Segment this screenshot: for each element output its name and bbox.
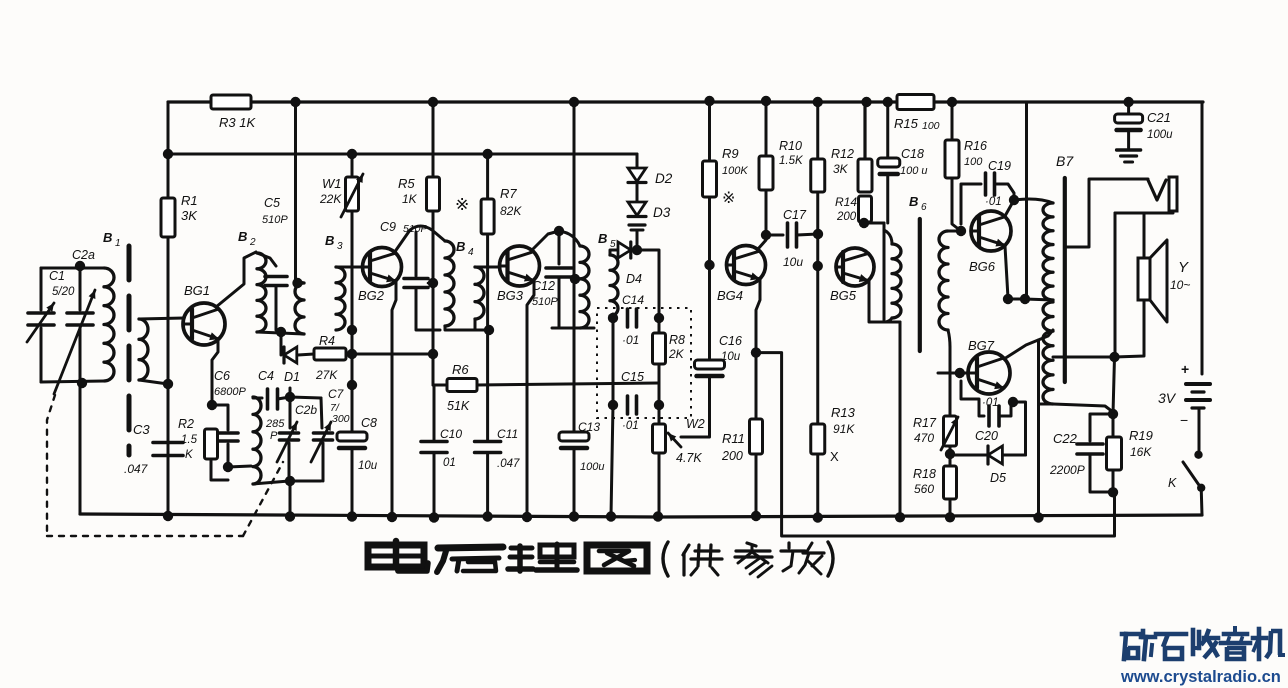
node top bus feed (290, 97, 300, 107)
svg-text:·01: ·01 (985, 196, 1002, 208)
svg-text:470: 470 (914, 431, 934, 445)
inductor B2 winding B (295, 283, 304, 334)
svg-text:P: P (270, 430, 278, 442)
resistor R15 on top bus (897, 95, 934, 110)
svg-text:B: B (456, 239, 465, 254)
wire B6 secondary top to BG6 base (948, 230, 958, 233)
svg-text:Y: Y (1178, 259, 1189, 276)
title character fang (787, 543, 790, 548)
wire R9 to BG4 base (708, 197, 711, 265)
wire jack to speaker line (1115, 212, 1173, 215)
capacitor C3 (153, 441, 183, 445)
node C14 right (654, 313, 664, 323)
svg-text:R17: R17 (913, 416, 937, 430)
svg-text:R19: R19 (1129, 428, 1153, 443)
ground symbol C21 (1117, 148, 1141, 151)
svg-text:4: 4 (468, 247, 474, 258)
svg-text:22K: 22K (319, 192, 342, 206)
svg-text:K: K (1168, 476, 1177, 490)
wire base node to C16 (708, 265, 711, 361)
capacitor C19 (961, 184, 981, 224)
node tank bottom (77, 378, 87, 388)
svg-text:+: + (1181, 361, 1189, 377)
svg-text:B: B (598, 231, 607, 246)
node R12 top bus (813, 97, 823, 107)
wire BG3 emitter to ground (527, 280, 534, 517)
wire B1 secondary bottom to R1 line (139, 380, 168, 384)
svg-text:C14: C14 (622, 293, 644, 307)
svg-text:100u: 100u (1147, 129, 1173, 141)
svg-text:D3: D3 (653, 205, 671, 220)
wire BG7 emitter network (961, 381, 984, 416)
node C17 right junction (813, 229, 823, 239)
node R10 top bus (761, 96, 771, 106)
node R13 ground (813, 512, 823, 522)
inductor B5 primary (580, 246, 589, 328)
wire B5 secondary top to D4 (610, 250, 618, 255)
svg-text:4.7K: 4.7K (676, 451, 702, 465)
wire BG4 emitter down (756, 279, 760, 352)
svg-text:R13: R13 (831, 405, 856, 420)
node W1 top on second bus (347, 149, 357, 159)
svg-text:C4: C4 (258, 369, 274, 383)
wire BG6 collector diagonal (1005, 200, 1014, 216)
svg-text:R6: R6 (452, 362, 469, 377)
capacitor C10 (433, 385, 436, 440)
svg-text:.047: .047 (124, 462, 149, 476)
dotted detector box (597, 308, 691, 418)
svg-text:1K: 1K (402, 192, 418, 206)
capacitor C21 electrolytic (1127, 102, 1130, 113)
wire AGC line (280, 332, 283, 355)
wire B4 secondary top to BG3 base (475, 266, 500, 269)
node B7 ground (1033, 512, 1043, 522)
node D3 bottom (632, 245, 642, 255)
wire R6 to C15 node (477, 383, 659, 385)
svg-text:16K: 16K (1130, 445, 1152, 459)
node C14 left (608, 313, 618, 323)
node BG5 ground (895, 512, 905, 522)
svg-text:C2b: C2b (295, 403, 317, 417)
inductor B3 winding (336, 267, 345, 330)
earphone jack spring (1148, 180, 1166, 200)
capacitor C14 (626, 309, 630, 327)
wire D3 cathode bars (629, 223, 645, 226)
watermark character shi (1156, 632, 1186, 637)
wire B5 primary top from C12 node (559, 231, 580, 246)
resistor R12b (863, 102, 866, 159)
wire C15 left to ground (611, 405, 613, 516)
svg-text:R1: R1 (181, 193, 198, 208)
svg-text:C6: C6 (214, 369, 230, 383)
resistor R3 on top bus (211, 95, 251, 109)
svg-text:D4: D4 (626, 272, 642, 286)
svg-text:C2a: C2a (72, 248, 95, 262)
svg-text:51K: 51K (447, 399, 470, 413)
node C11 ground (482, 511, 492, 521)
svg-text:B: B (325, 233, 334, 248)
svg-text:C18: C18 (901, 147, 924, 161)
svg-text:C3: C3 (133, 422, 150, 437)
capacitor C2b variable (289, 397, 292, 428)
svg-text:3K: 3K (833, 162, 849, 176)
capacitor C16 electrolytic (695, 360, 725, 369)
wire tank bottom rail (253, 481, 321, 484)
svg-text:·01: ·01 (622, 420, 639, 432)
potentiometer R17 (944, 416, 957, 446)
svg-text:R15: R15 (894, 116, 919, 131)
inductor B1 secondary winding (139, 319, 148, 380)
resistor R12 (816, 102, 819, 159)
svg-text:2200P: 2200P (1049, 463, 1085, 477)
capacitor C9 (415, 232, 418, 276)
wire collector to B7 top (1014, 199, 1053, 203)
capacitor C11 (475, 440, 501, 444)
title character can (747, 543, 756, 546)
svg-text:10u: 10u (721, 351, 741, 363)
svg-text:.047: .047 (497, 458, 520, 470)
node C22 top (1108, 409, 1118, 419)
node C8 ground (347, 511, 357, 521)
node ground bus left (163, 511, 173, 521)
wire C14 left to C15 left (612, 318, 615, 405)
svg-text:BG5: BG5 (830, 288, 857, 303)
capacitor C8 electrolytic (337, 432, 367, 441)
resistor R18 (949, 446, 952, 466)
node second bus left (163, 149, 173, 159)
loudspeaker Y (1138, 258, 1150, 300)
node BG7 emitter (1008, 397, 1018, 407)
resistor R2 (205, 429, 218, 459)
watermark character kuang (1122, 632, 1140, 637)
svg-text:C20: C20 (975, 429, 998, 443)
rheostat W1 (351, 154, 354, 177)
svg-text:R14: R14 (835, 195, 857, 209)
node BG6 base (956, 226, 966, 236)
svg-text:C19: C19 (988, 159, 1011, 173)
wire BG7 base wire (938, 372, 968, 375)
node W2 ground (653, 511, 663, 521)
svg-text:C7: C7 (328, 387, 345, 401)
svg-text:R10: R10 (779, 139, 802, 153)
wire BG6 emitter down (1005, 246, 1008, 298)
resistor R19 (1112, 414, 1115, 437)
node C18 top bus (883, 97, 893, 107)
wire B7 bottom to ground bus (1039, 404, 1054, 518)
svg-text:2K: 2K (668, 347, 685, 361)
node R14 bottom (859, 218, 869, 228)
svg-text:−: − (1180, 412, 1188, 428)
wire R2 bottom (211, 459, 228, 480)
inductor B6 secondary (939, 231, 948, 330)
svg-text:510P: 510P (262, 214, 288, 226)
resistor R4 (298, 354, 314, 355)
svg-text:200: 200 (721, 449, 743, 463)
capacitor C1 variable (40, 268, 43, 310)
svg-text:200: 200 (836, 211, 857, 223)
node B3 bottom (347, 325, 357, 335)
node R9 top bus (704, 96, 714, 106)
svg-text:3K: 3K (181, 208, 198, 223)
node winding B top (292, 278, 302, 288)
wire B+ tap to winding center (1025, 299, 1053, 300)
svg-text:510P: 510P (403, 223, 428, 235)
wire B5 primary bottom rail (552, 327, 594, 330)
capacitor C13 electrolytic (559, 432, 589, 441)
wire C20 right to emitter node (999, 404, 1011, 416)
wire W2 wiper to C16 (681, 436, 709, 439)
svg-text:BG3: BG3 (497, 288, 524, 303)
resistor R13 (811, 424, 825, 454)
wire W1 line down through B3 bottom to C8 (351, 211, 354, 330)
earphone jack sleeve (1169, 177, 1177, 211)
node C15 left (608, 400, 618, 410)
title character dian (368, 545, 424, 567)
svg-text:D1: D1 (284, 370, 300, 384)
wire D4 to C14 right (634, 250, 659, 314)
svg-text:C21: C21 (1147, 110, 1171, 125)
resistor R11 (755, 353, 758, 419)
svg-text:C17: C17 (783, 208, 807, 222)
wire switch to ground bus (1200, 488, 1204, 515)
resistor R6 (447, 379, 477, 392)
resistor R7 (486, 154, 489, 199)
wire left vertical from top bus through R1 C3 to bottom bus (167, 102, 170, 516)
resistor R16 (951, 102, 954, 140)
inductor B7 upper winding (1043, 203, 1053, 300)
resistor R9 (708, 102, 711, 161)
svg-text:D2: D2 (655, 171, 673, 186)
node ground (606, 511, 616, 521)
svg-text:100u: 100u (580, 461, 604, 473)
svg-text:BG1: BG1 (184, 283, 210, 298)
svg-text:X: X (830, 449, 839, 464)
node C13 ground (569, 511, 579, 521)
node R18 ground (945, 512, 955, 522)
wire tank top rail (290, 397, 321, 398)
wire BG3 collector to B5 (531, 231, 559, 251)
svg-text:285: 285 (265, 418, 285, 430)
capacitor C15 (626, 396, 630, 414)
wire R10 to C17 node (765, 190, 768, 235)
title open paren (663, 542, 668, 576)
node x574 top bus (569, 97, 579, 107)
wire secondary tap (1053, 356, 1115, 359)
node emitter junction (207, 400, 217, 410)
capacitor C12 (558, 231, 561, 264)
svg-text:3V: 3V (1158, 390, 1177, 406)
svg-text:C8: C8 (361, 416, 377, 430)
capacitor C2a variable (79, 266, 82, 310)
svg-text:R4: R4 (319, 334, 335, 348)
ferrite rod (dashed bar) (127, 246, 132, 455)
svg-text:560: 560 (914, 482, 934, 496)
svg-text:C22: C22 (1053, 431, 1078, 446)
svg-text:BG6: BG6 (969, 259, 996, 274)
wire BG2 emitter to ground bus (392, 281, 396, 517)
svg-text:5: 5 (610, 239, 616, 250)
wire emitter node down to D5 (1013, 402, 1026, 455)
node C9 junction (428, 278, 438, 288)
svg-text:1.5K: 1.5K (779, 155, 804, 167)
svg-text:R3 1K: R3 1K (219, 115, 256, 130)
svg-text:100: 100 (964, 156, 983, 168)
node BG2 emitter ground (387, 512, 397, 522)
resistor R5 (432, 102, 435, 177)
wire BG4 collector to C17 (758, 235, 766, 249)
node C22 bottom (1108, 487, 1118, 497)
node C15 right (654, 400, 664, 410)
node C8 top (347, 380, 357, 390)
capacitor C5 (257, 253, 276, 266)
dashed gang-tuning linkage (47, 395, 55, 532)
svg-text:W1: W1 (322, 176, 342, 191)
node C10 ground (429, 512, 439, 522)
svg-text:R8: R8 (669, 333, 685, 347)
svg-text:6: 6 (921, 202, 927, 213)
wire R16 to BG6 base (952, 178, 961, 231)
wire speaker bottom to return (1115, 300, 1145, 357)
wire B6 secondary bottom to R17 line (948, 330, 950, 347)
svg-text:BG7: BG7 (968, 338, 995, 353)
wire feedback return long (756, 353, 1115, 536)
node BG7 base (955, 368, 965, 378)
node speaker return (1109, 352, 1119, 362)
wire bottom ground bus (80, 514, 1202, 517)
wire B4 bottom rail (445, 326, 490, 330)
node R17 R18 junction (945, 449, 955, 459)
node R5 top bus (428, 97, 438, 107)
wire B1 secondary top to BG1 base (139, 318, 184, 319)
capacitor C20 (987, 406, 991, 426)
wire R6 line (433, 384, 447, 387)
wire antenna tank top rail (41, 267, 104, 270)
capacitor C18 electrolytic (886, 102, 889, 157)
node R16 top bus (947, 97, 957, 107)
diode D5 (988, 446, 1002, 464)
svg-text:·01: ·01 (982, 397, 999, 409)
svg-text:B: B (909, 194, 918, 209)
svg-text:R11: R11 (722, 431, 745, 446)
switch K (1194, 451, 1202, 459)
wire BG2 collector to B4 (394, 226, 445, 253)
svg-text:·01: ·01 (622, 333, 639, 347)
wire bottom-left riser from B1 to ground bus (79, 384, 82, 514)
title character di (438, 547, 503, 548)
wire BG5 base line to R13 (816, 266, 819, 424)
wire jack return down (1114, 213, 1117, 357)
svg-text:R7: R7 (500, 186, 517, 201)
svg-text:B7: B7 (1056, 153, 1074, 169)
svg-text:01: 01 (443, 457, 456, 469)
wire R12 to BG5 base (816, 192, 819, 266)
wire winding bottom to C22 node (1053, 404, 1113, 412)
svg-text:BG4: BG4 (717, 288, 743, 303)
svg-text:6800P: 6800P (214, 386, 246, 398)
wire feed from top bus to B2 winding B (294, 102, 297, 281)
wire AGC to R5 line (352, 353, 433, 356)
svg-text:C5: C5 (264, 196, 280, 210)
svg-text:5/20: 5/20 (52, 286, 75, 298)
wire BG7 collector to B7 lower (1004, 330, 1053, 359)
node R12b top bus (861, 97, 871, 107)
svg-text:2: 2 (249, 237, 256, 248)
wire B+ vertical from top bus (1025, 102, 1028, 299)
watermark character yin (1233, 628, 1237, 633)
resistor R14 (859, 196, 872, 222)
node BG6 collector (1009, 195, 1019, 205)
wire antenna tank bottom rail (41, 381, 104, 382)
node BG3 collector (554, 226, 564, 236)
capacitor C22 (1090, 414, 1113, 441)
svg-text:C1: C1 (49, 269, 65, 283)
svg-text:C10: C10 (440, 427, 462, 441)
inductor B1 primary winding (104, 268, 114, 381)
transistor BG6 (971, 211, 1011, 251)
svg-text:R18: R18 (913, 467, 936, 481)
inductor B4 primary (445, 241, 454, 326)
node C21 top bus (1123, 97, 1133, 107)
svg-text:100: 100 (922, 120, 940, 132)
svg-text:B: B (103, 230, 112, 245)
wire 574 feed line (573, 102, 576, 279)
node BG4 base (704, 260, 714, 270)
wire R5 line down (432, 211, 435, 354)
svg-text:1: 1 (115, 238, 121, 249)
wire B5 secondary bottom to C14 left (610, 314, 613, 318)
title close paren (828, 542, 833, 576)
svg-text:82K: 82K (500, 204, 522, 218)
node B2 bottom (276, 327, 286, 337)
wire B3 top to BG2 base (336, 266, 370, 269)
transistor BG4 (727, 246, 766, 285)
wire B2 bottom rail (257, 332, 304, 334)
watermark character ji (1257, 629, 1262, 659)
wire secondary top to jack (1065, 179, 1148, 247)
wire battery to switch (1198, 408, 1201, 450)
node BG3 emitter ground (522, 512, 532, 522)
diode D4 (618, 242, 631, 258)
svg-text:www.crystalradio.cn: www.crystalradio.cn (1120, 668, 1281, 686)
node C2a top (75, 261, 85, 271)
node B5 tap (570, 274, 580, 284)
svg-text:1.5: 1.5 (181, 434, 198, 446)
svg-text:R12: R12 (831, 147, 854, 161)
svg-text:R2: R2 (178, 417, 194, 431)
resistor R1 (161, 198, 175, 237)
transistor BG1 (183, 303, 225, 345)
svg-text:10~: 10~ (1170, 278, 1190, 292)
svg-text:3: 3 (337, 241, 343, 252)
svg-text:BG2: BG2 (358, 288, 385, 303)
inductor B2 winding A (257, 253, 266, 332)
wire BG1 emitter down (212, 340, 218, 405)
diode D3 (636, 183, 639, 202)
svg-text:10u: 10u (783, 255, 803, 269)
inductor B5 secondary (610, 255, 618, 316)
svg-text:C12: C12 (532, 279, 555, 293)
node tank top (285, 392, 295, 402)
core B6 (918, 219, 922, 351)
inductor B7 lower winding (1043, 302, 1053, 404)
resistor R8 (658, 318, 661, 333)
node R1 bottom junction (163, 379, 173, 389)
transistor BG2 (363, 248, 402, 287)
inductor oscillator feedback coil (253, 397, 261, 484)
inductor B4 secondary (475, 267, 484, 319)
diode D2 (636, 154, 639, 168)
svg-text:100 u: 100 u (900, 165, 928, 177)
